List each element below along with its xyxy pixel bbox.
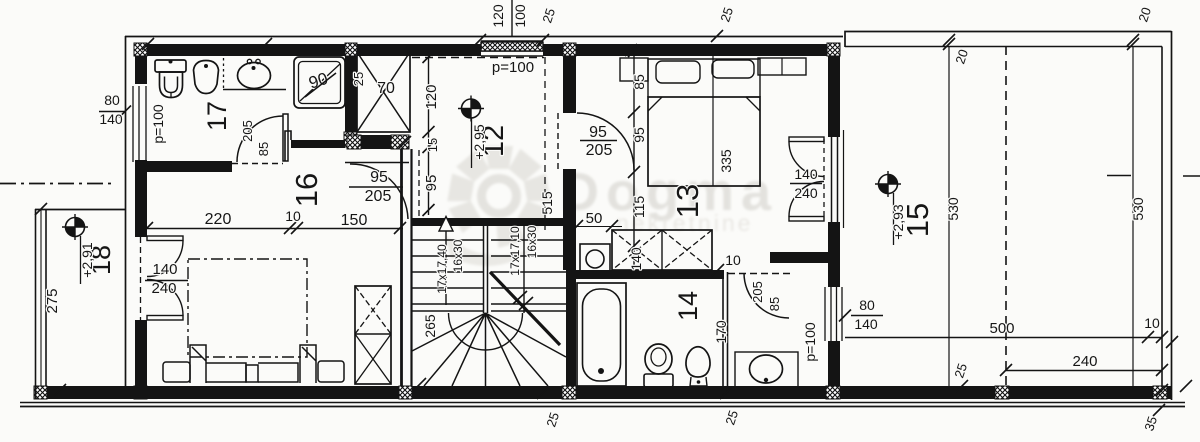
bed room13 body [648, 97, 760, 186]
bidet 14 base [690, 377, 707, 386]
hall sink bowl [750, 355, 783, 383]
svg-text:95: 95 [423, 175, 440, 192]
hatch top wall at rooms12-13 wall [563, 43, 576, 56]
wardrobe X bottom [355, 334, 391, 384]
room12 dashed edge [544, 57, 546, 230]
counter 17 left edge dotted [223, 58, 225, 89]
svg-text:85: 85 [631, 74, 647, 90]
balcony door leaf bottom [147, 316, 183, 321]
left wall band mid [135, 160, 147, 228]
bath14 right wall line a [722, 272, 724, 399]
balcony18 left wall inner [45, 209, 47, 386]
door room12-13 arc [577, 113, 634, 170]
svg-text:140: 140 [794, 166, 818, 182]
hatch bottom stair right wall [562, 386, 576, 399]
rug room16 [188, 259, 307, 357]
bidet 17 detail [204, 64, 208, 68]
hatch top wall at bath17 wall [345, 43, 357, 56]
sink 17 taps [247, 59, 251, 63]
left wall band upper [135, 56, 147, 84]
bathtub outer [577, 283, 626, 386]
closet divider [661, 230, 663, 270]
right main wall lower [828, 341, 840, 386]
rooms12-13 wall mid [563, 169, 576, 270]
shaft X [357, 52, 410, 132]
terrace top ticks 20 [943, 38, 1139, 50]
top wall band right wing [576, 44, 827, 56]
toilet 14 tank [644, 374, 673, 387]
dim line 95-205 door16 [349, 186, 403, 188]
WATERMARK [444, 146, 778, 266]
blanket fold right [746, 97, 760, 111]
terrace right wall outer [1171, 31, 1173, 400]
toilet 14 inner [651, 348, 666, 366]
dim line 80-140 left [99, 111, 125, 113]
rooms12-13 wall upper [563, 56, 576, 113]
outer top wall line [125, 36, 843, 38]
svg-text:+2,91: +2,91 [79, 242, 95, 278]
bottom ticks [54, 336, 1192, 416]
pillow 2 [712, 60, 754, 78]
washing machine [580, 244, 610, 274]
bidet 17 [194, 61, 219, 94]
closet X left [612, 230, 662, 270]
closet X right [662, 230, 712, 270]
dim 275 line balcony [40, 209, 42, 386]
right main wall upper [828, 56, 840, 137]
tick 80-140 left [119, 106, 131, 118]
svg-text:95: 95 [631, 127, 647, 143]
svg-text:170: 170 [713, 320, 729, 344]
dim line 80-140 right [851, 315, 883, 317]
bath14 right wall line b [727, 272, 729, 399]
svg-text:275: 275 [44, 288, 61, 313]
svg-text:17x17,10: 17x17,10 [508, 226, 522, 276]
toilet 17 inner tail [170, 93, 172, 98]
svg-text:205: 205 [750, 281, 765, 303]
svg-text:10: 10 [725, 252, 741, 268]
bath17 bottom wall [147, 161, 232, 172]
toilet 17 bowl [160, 72, 183, 98]
sofa cushion 1 [206, 363, 246, 382]
slab lower line 1 [20, 402, 1185, 404]
watermark sun [444, 146, 551, 266]
shower 17 inner [299, 62, 341, 104]
bath17 right wall band [345, 56, 357, 132]
sofa right table [318, 361, 344, 382]
level marker room12 [458, 96, 484, 122]
shaft box [357, 52, 410, 132]
hall sink drain [764, 378, 768, 382]
svg-text:140: 140 [152, 261, 177, 278]
shower slash [305, 73, 336, 97]
door 16-hall arc [350, 164, 408, 219]
wall seg bath17 niche [291, 140, 345, 148]
left wall band lower [135, 331, 147, 386]
svg-text:530: 530 [1130, 197, 1146, 221]
hatch bottom balcony wall [34, 386, 47, 399]
bottom slab band [35, 386, 1172, 399]
svg-text:240: 240 [151, 280, 176, 297]
hatch bottom terrace mid [995, 386, 1009, 399]
shower 17 outer [294, 57, 345, 108]
door 16-hall leaf line [345, 162, 409, 164]
balcony18 top edge [35, 209, 126, 211]
shower 17 diagonal [300, 64, 340, 101]
stairs group [412, 57, 566, 386]
bed head zone [648, 59, 760, 97]
nightstand right divider [781, 58, 783, 75]
svg-text:205: 205 [240, 120, 255, 142]
svg-text:150: 150 [341, 212, 368, 229]
stairwell left wall line b [410, 149, 412, 386]
door opening dashed room13-hall [728, 273, 792, 275]
toilet 14 bowl [645, 344, 672, 374]
svg-text:13: 13 [670, 184, 705, 218]
svg-text:+2,93: +2,93 [890, 204, 906, 240]
ticks wall y142 [357, 136, 411, 148]
washing machine drum [586, 250, 604, 268]
svg-text:140: 140 [99, 111, 123, 127]
axis stub right [1183, 175, 1200, 177]
sofa mid piece [246, 365, 258, 382]
door 17 opening dashed [232, 163, 283, 165]
tick 80-140 right [839, 310, 851, 322]
ticks chain x634 [628, 45, 640, 252]
blanket fold left [648, 97, 662, 111]
svg-text:95: 95 [589, 124, 607, 141]
ticks chain x428 [423, 51, 435, 216]
hatch bottom stair left wall [399, 386, 412, 399]
dim line 140-240 balcony door [145, 280, 188, 282]
hall sink counter [735, 352, 798, 393]
door room12-13 leaf dashed [557, 113, 559, 169]
nightstand right [758, 58, 806, 75]
svg-text:16x30: 16x30 [451, 239, 465, 272]
bathtub inner [583, 289, 621, 381]
level marker underline room12 [471, 118, 473, 168]
level marker balcony18 [62, 214, 88, 240]
level marker terrace15 [875, 171, 901, 197]
svg-text:85: 85 [256, 142, 271, 156]
hatch wall y136 left [347, 135, 361, 149]
closet room13 [612, 230, 712, 270]
bathtub drain [598, 368, 604, 374]
svg-text:335: 335 [718, 149, 734, 173]
tick closet 10 [712, 264, 724, 276]
closet-bath14 wall band [566, 270, 724, 279]
top wall band left wing [147, 44, 345, 56]
door 17 leaf [283, 114, 288, 161]
svg-text:500: 500 [989, 320, 1014, 337]
toilet 17 tank dot [169, 60, 173, 64]
svg-text:17: 17 [202, 101, 232, 131]
svg-text:140: 140 [628, 247, 644, 271]
svg-text:80: 80 [104, 92, 120, 108]
slab lower line 2 [20, 406, 1185, 408]
terrace dim 500 line [845, 337, 1162, 339]
door 17 arc [237, 116, 283, 162]
walk line right [523, 222, 525, 313]
sofa cushion 2 [258, 363, 298, 382]
svg-text:15: 15 [425, 138, 440, 152]
hatch bottom right main wall [826, 386, 840, 399]
svg-text:85: 85 [767, 297, 782, 311]
top wall band seg window-right [543, 44, 563, 56]
dim chain room16 y228 [147, 228, 403, 230]
svg-text:16x30: 16x30 [525, 225, 539, 258]
svg-text:70: 70 [377, 80, 395, 97]
svg-text:515: 515 [539, 191, 555, 215]
dim line 140-240 terrace door [790, 183, 822, 185]
terrace dim line left [948, 46, 950, 390]
dim chain x428 [428, 57, 430, 215]
balcony door arc bottom [147, 280, 183, 316]
terrace dim line right [1132, 46, 1134, 390]
sofa left table [163, 362, 190, 382]
toilet 17 tank [155, 60, 186, 72]
svg-text:+2,95: +2,95 [471, 124, 487, 160]
axis dash terrace [1107, 175, 1131, 177]
treads left flight [412, 224, 483, 311]
svg-text:95: 95 [370, 169, 388, 186]
winder radials [412, 313, 566, 386]
sofa left armrest [190, 345, 206, 383]
dim chain x634 [633, 44, 635, 270]
svg-text:p=100: p=100 [150, 104, 166, 144]
svg-text:50: 50 [586, 210, 603, 227]
wardrobe mid line [355, 333, 391, 335]
right main wall mid [828, 222, 840, 287]
dim 50 line [566, 226, 622, 228]
window bath17 left wall [133, 86, 146, 162]
svg-text:205: 205 [586, 142, 613, 159]
tick room16 220 double [284, 222, 303, 234]
svg-text:16: 16 [289, 173, 324, 207]
svg-text:205: 205 [365, 188, 392, 205]
tick room16 left [141, 222, 153, 234]
window p100 right wall [825, 287, 842, 341]
svg-text:140: 140 [854, 316, 878, 332]
terrace dim 240 line [1006, 370, 1162, 372]
dim line 95-205 door12-13 [580, 140, 617, 142]
svg-text:240: 240 [794, 185, 818, 201]
terrace door leaf top [789, 137, 824, 142]
walk arc [449, 313, 523, 350]
bed centre split [712, 50, 714, 186]
dashed sill room12 window [412, 57, 544, 59]
tick room16 150 end [394, 222, 406, 234]
wardrobe X top [355, 286, 391, 334]
top ticks [142, 30, 1139, 56]
terrace door leaf bottom [789, 217, 824, 222]
tick balcony top [35, 203, 47, 215]
svg-text:115: 115 [631, 196, 647, 219]
terrace top wall inner line [845, 46, 1162, 48]
dim 50 ticks room14 top [571, 220, 618, 232]
terrace right wall inner [1161, 47, 1163, 387]
left wall block below balcony door [135, 320, 147, 331]
pillow 1 [656, 61, 700, 83]
svg-text:p=100: p=100 [802, 322, 818, 362]
wall room13-hall niche [770, 252, 828, 263]
terrace top wall outer [845, 32, 1172, 48]
FIXTURES [62, 50, 901, 393]
balcony door arc top [147, 241, 183, 277]
counter 17 front [223, 89, 286, 91]
svg-text:10: 10 [1144, 315, 1160, 331]
walk arrow triangle [439, 217, 453, 232]
window top room12 [481, 41, 543, 56]
top window dim line x512 [511, 0, 513, 36]
left outer wall line [125, 36, 127, 399]
sink 17 [238, 63, 271, 89]
stair-bath14 wall lower [566, 270, 576, 386]
hatch bottom terrace right [1153, 386, 1167, 399]
svg-text:17x17,40: 17x17,40 [435, 244, 449, 294]
hatch bath17 right wall bottom [344, 132, 357, 147]
stairwell left wall line a [400, 149, 403, 386]
terrace door arc bottom [789, 182, 824, 217]
svg-text:100: 100 [512, 4, 528, 28]
door hall-13 arc [744, 273, 789, 318]
toilet 17 bowl inner [165, 77, 178, 93]
wall y136 stair-north band [347, 135, 409, 149]
terrace ticks 500-240 [1000, 331, 1168, 376]
hatch wall y136 right [391, 135, 409, 149]
svg-text:10: 10 [285, 208, 301, 224]
bidet 14 [686, 347, 710, 377]
svg-text:14: 14 [673, 291, 703, 321]
svg-text:530: 530 [945, 197, 961, 221]
svg-text:p=100: p=100 [492, 59, 534, 76]
svg-text:240: 240 [1072, 353, 1097, 370]
level marker underline 18 [80, 236, 82, 284]
treads right flight [491, 224, 566, 311]
svg-text:220: 220 [205, 211, 232, 228]
cut line slashes [513, 291, 533, 310]
sink 17 faucet dot [252, 66, 256, 70]
left wall block above balcony door [135, 228, 147, 237]
balcony door dashed [140, 237, 142, 320]
nightstand left [620, 58, 648, 81]
terrace dashed centre line [1005, 46, 1007, 386]
hatch top wall at right wall [827, 43, 840, 56]
svg-text:25: 25 [351, 72, 366, 86]
level marker underline 15 [893, 193, 895, 245]
top wall band mid [357, 44, 481, 56]
svg-text:120: 120 [490, 4, 506, 28]
balcony door leaf top [147, 236, 183, 241]
bath17 door jamb step [285, 131, 291, 161]
axis dash-dot left [0, 183, 111, 185]
room12 bottom wall band [412, 218, 563, 226]
balcony18 left wall outer [35, 209, 37, 399]
sofa right armrest [300, 345, 316, 383]
stair cut line [490, 272, 560, 345]
svg-text:120: 120 [423, 84, 440, 109]
hatch left wall bottom [134, 386, 147, 399]
terrace door arc top [789, 142, 824, 177]
stair divider [483, 218, 485, 313]
wardrobe room16 [355, 286, 391, 384]
right main wall door dashes [823, 139, 825, 220]
svg-text:80: 80 [859, 297, 875, 313]
svg-text:265: 265 [422, 314, 438, 338]
corner hatch top-left [134, 43, 147, 56]
landing dashed edge [418, 150, 420, 218]
walk line left [445, 222, 447, 305]
